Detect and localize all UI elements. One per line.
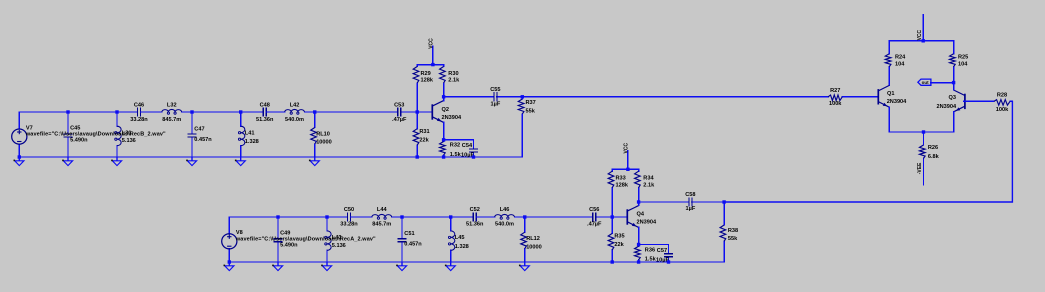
transistor Q3 [936,90,964,112]
svg-text:51.36n: 51.36n [256,117,274,123]
junction [611,260,614,263]
capacitor C47 [187,112,212,157]
svg-text:R25: R25 [958,55,968,61]
resistor R26 [920,132,940,167]
svg-text:33.28n: 33.28n [340,222,358,228]
inductor L45 [448,217,468,262]
junction [922,39,925,42]
svg-text:0.457n: 0.457n [194,137,212,143]
capacitor C54 [461,140,478,159]
svg-text:104: 104 [958,61,968,67]
resistor R32 [440,140,462,158]
wire C53 to Q2 base [401,111,433,113]
capacitor C48 [256,102,274,123]
junction [523,215,526,218]
svg-text:R33: R33 [616,176,626,182]
svg-text:845.7m: 845.7m [162,117,181,123]
resistor R24 [885,41,906,86]
junction [115,110,118,113]
svg-text:1.328: 1.328 [455,244,469,250]
resistor R30 [440,65,460,97]
transistor Q1 [878,85,907,107]
resistor R25 [950,41,969,83]
junction [637,200,640,203]
resistor R28 [993,92,1013,113]
junction [416,110,419,113]
junction [449,215,452,218]
svg-text:51.36n: 51.36n [466,222,484,228]
resistor R27 [826,88,877,107]
svg-text:C54: C54 [462,143,473,149]
junction [952,81,955,84]
svg-text:L45: L45 [455,235,465,241]
svg-text:2N3904: 2N3904 [637,220,657,226]
resistor R31 [413,112,429,157]
svg-text:C57: C57 [657,248,667,254]
svg-text:L32: L32 [167,102,177,108]
svg-text:33.28n: 33.28n [130,117,148,123]
wire out flag to Q3 collector [931,82,954,84]
svg-text:10µF: 10µF [656,257,669,263]
inductor L31 [115,112,136,157]
svg-text:845.7m: 845.7m [372,222,391,228]
svg-text:6.8k: 6.8k [928,154,940,160]
inductor L44 [351,207,474,228]
resistor R33 [608,169,629,217]
wire C56 to Q4 base [596,216,628,218]
svg-text:2.1k: 2.1k [643,182,655,188]
junction [626,168,629,171]
junction [431,63,434,66]
svg-text:VCC: VCC [917,29,923,40]
voltage source V8 [222,217,376,262]
junction [442,95,445,98]
svg-text:1µF: 1µF [686,206,696,212]
junction [722,200,725,203]
junction [442,138,445,141]
svg-text:5.136: 5.136 [332,243,346,249]
svg-text:2N3904: 2N3904 [442,115,462,121]
wire C55 to R27 [522,96,828,98]
ground [186,157,196,166]
junction [239,110,242,113]
svg-text:L46: L46 [500,207,510,213]
inductor L42 [266,102,315,123]
svg-text:RL10: RL10 [316,132,330,138]
svg-text:C52: C52 [470,207,480,213]
svg-text:C53: C53 [394,102,404,108]
junction [190,110,193,113]
ground [309,157,319,166]
svg-text:C58: C58 [685,192,695,198]
svg-text:540.0m: 540.0m [285,117,304,123]
wire Q3 collector [953,83,955,90]
svg-text:R37: R37 [526,100,536,106]
svg-text:2N3904: 2N3904 [936,104,956,110]
ground [62,157,72,166]
junction [637,260,640,263]
svg-text:R24: R24 [895,55,906,61]
svg-text:0.457n: 0.457n [404,242,422,248]
junction [637,243,640,246]
wire Q3 base to R28 [964,100,994,102]
svg-text:R30: R30 [448,71,458,77]
svg-text:128k: 128k [421,78,434,84]
svg-text:5.136: 5.136 [122,138,136,144]
wire tail rail [889,131,953,133]
svg-text:.47µF: .47µF [392,117,407,123]
capacitor C45 [63,112,88,157]
junction [922,130,925,133]
ground [445,262,455,271]
wire top amp VCC rail [417,64,443,66]
voltage source V7 [12,112,166,157]
ground [235,157,245,166]
capacitor C46 [130,102,148,123]
wire R28 to bottom channel output [724,101,1012,202]
svg-text:R29: R29 [421,71,431,77]
svg-text:-VEE: -VEE [917,162,923,174]
svg-text:V7: V7 [26,125,33,131]
svg-text:540.0m: 540.0m [495,222,514,228]
svg-text:55k: 55k [526,108,536,114]
wire Q2 collector [443,97,445,101]
junction [472,155,475,158]
capacitor C57 [656,245,673,264]
svg-text:R27: R27 [830,88,840,94]
svg-text:55k: 55k [728,236,738,242]
node out [918,79,931,85]
svg-text:100k: 100k [996,107,1009,113]
junction [313,110,316,113]
junction [325,215,328,218]
svg-text:C51: C51 [404,231,414,237]
ground [321,262,331,271]
svg-text:1.5k: 1.5k [645,257,657,263]
wire bottom amp VCC rail [612,168,638,170]
ground [396,262,406,271]
svg-text:1µF: 1µF [491,101,501,107]
wire emitter to C54 [444,139,474,141]
svg-text:L42: L42 [290,102,300,108]
resistor R35 [608,217,624,262]
svg-text:1.328: 1.328 [245,139,259,145]
svg-text:wavefile="C:\Users\avaug\Downl: wavefile="C:\Users\avaug\Downloads\RecA_… [235,236,376,242]
VCC flag [623,143,629,170]
svg-text:C46: C46 [134,102,144,108]
svg-text:C56: C56 [589,207,599,213]
junction [400,215,403,218]
wire bottom rail to C56 [525,216,593,218]
svg-text:1.5k: 1.5k [450,152,462,158]
svg-text:R26: R26 [928,145,938,151]
svg-text:C47: C47 [194,127,204,133]
svg-text:V8: V8 [236,230,243,236]
wire top ground rail [19,156,522,158]
junction [18,155,21,158]
svg-text:R28: R28 [997,92,1007,98]
svg-text:C55: C55 [490,87,500,93]
resistor R38 [720,202,738,262]
resistor R36 [635,245,657,263]
svg-text:5.490n: 5.490n [70,138,88,144]
junction [276,215,279,218]
svg-text:wavefile="C:\Users\avaug\Downl: wavefile="C:\Users\avaug\Downloads\RecB_… [25,132,166,138]
svg-text:VCC: VCC [428,38,434,49]
svg-text:5.490n: 5.490n [280,242,298,248]
svg-text:R32: R32 [450,143,460,149]
wire top rail to C53 [315,111,398,113]
inductor L43 [325,217,346,262]
ground [272,262,282,271]
transistor Q4 [627,206,657,228]
VCC flag [917,15,923,41]
capacitor C51 [397,217,422,262]
wire Q3 emitter to tail [953,112,955,132]
wire Q1 emitter to tail [888,107,890,132]
svg-text:C49: C49 [280,230,290,236]
svg-text:10000: 10000 [316,140,332,146]
junction [442,155,445,158]
svg-text:128k: 128k [616,182,629,188]
svg-text:L44: L44 [377,207,388,213]
svg-text:Q4: Q4 [637,212,645,218]
ground [519,262,529,271]
capacitor C58 [639,192,725,212]
VCC flag [428,38,434,65]
svg-text:R38: R38 [728,228,738,234]
ground [111,157,121,166]
resistor R29 [413,65,434,112]
svg-text:100k: 100k [829,101,842,107]
svg-text:R34: R34 [643,176,654,182]
wire top rail left [19,111,137,113]
capacitor C55 [444,87,523,107]
junction [611,215,614,218]
svg-text:Q2: Q2 [442,107,449,113]
svg-text:C50: C50 [344,207,354,213]
capacitor C56 [587,207,602,228]
svg-text:10µF: 10µF [461,153,474,159]
svg-text:Q1: Q1 [887,91,894,97]
svg-text:L41: L41 [245,130,255,136]
svg-text:RL12: RL12 [526,236,540,242]
resistor RL12 [521,217,542,262]
inductor L32 [141,102,264,123]
wire bottom ground rail [229,261,724,263]
ground [14,157,24,166]
wire Q4 emitter [638,227,640,244]
svg-text:C48: C48 [260,102,270,108]
capacitor C49 [273,217,298,262]
svg-text:.47µF: .47µF [587,222,602,228]
svg-text:22k: 22k [614,242,624,248]
junction [667,260,670,263]
junction [228,260,231,263]
svg-text:out: out [922,80,929,85]
-VEE flag [917,162,924,185]
svg-text:2N3904: 2N3904 [887,99,907,105]
svg-text:VCC: VCC [623,143,629,154]
junction [66,110,69,113]
svg-text:Q3: Q3 [949,95,956,101]
svg-text:R36: R36 [645,247,655,253]
junction [521,95,524,98]
svg-text:C45: C45 [70,126,80,132]
resistor R37 [518,97,535,157]
svg-text:10000: 10000 [526,244,542,250]
resistor RL10 [311,112,332,157]
junction [416,155,419,158]
capacitor C50 [340,207,358,228]
svg-text:104: 104 [895,61,905,67]
wire Q4 collector [638,202,640,205]
svg-text:R31: R31 [419,129,429,135]
inductor L41 [238,112,258,157]
wire diff pair VCC rail [889,40,953,42]
capacitor C53 [392,102,407,123]
svg-text:2.1k: 2.1k [448,78,460,84]
inductor L46 [476,207,525,228]
svg-text:22k: 22k [419,138,429,144]
wire emitter to C57 [639,244,669,246]
resistor R34 [635,169,655,202]
capacitor C52 [466,207,484,228]
wire Q2 emitter [443,122,445,139]
wire bottom rail left [229,216,347,218]
svg-text:R35: R35 [614,234,624,240]
transistor Q2 [432,101,462,123]
ground [224,262,234,271]
